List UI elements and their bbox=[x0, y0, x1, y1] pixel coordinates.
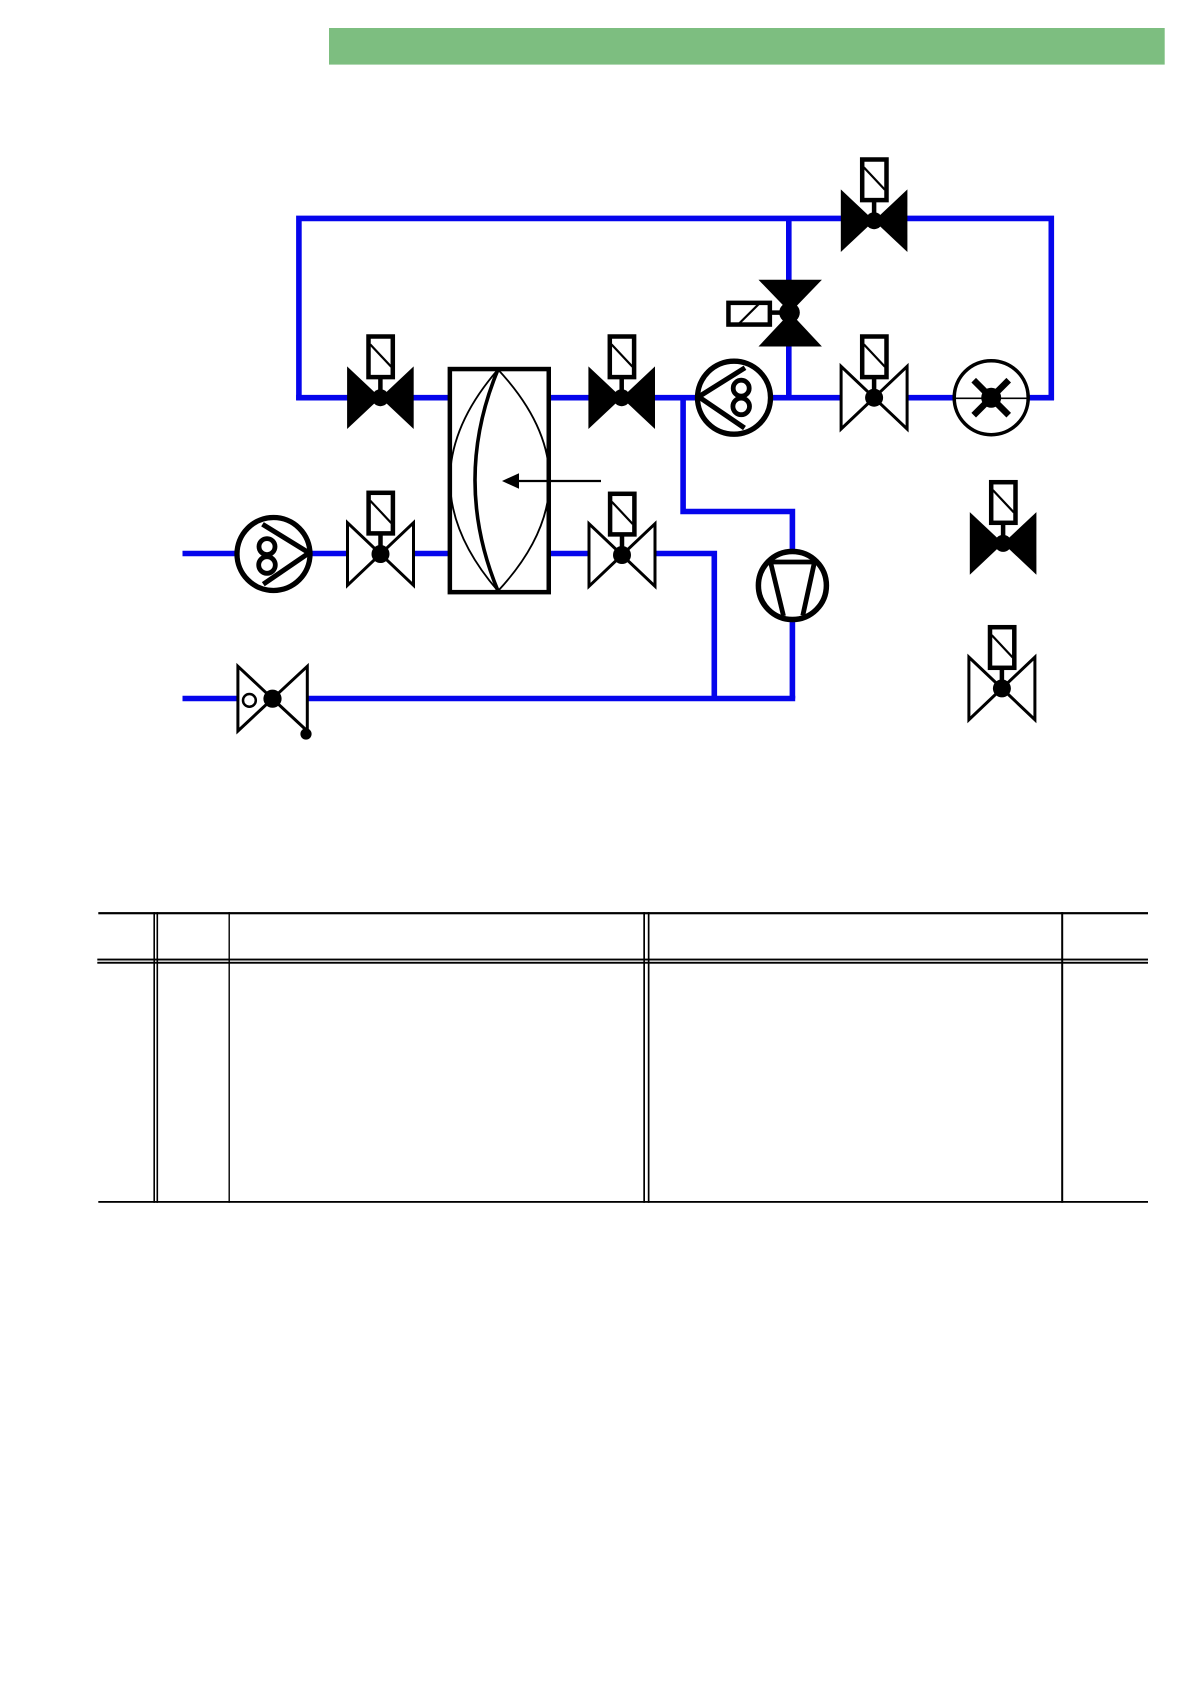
table: double vertical rule mid (left line) bbox=[643, 912, 645, 1203]
standalone control valve (white), legend right bbox=[969, 627, 1035, 720]
control valve (white, ball) on return row, left of exchanger bbox=[348, 493, 414, 586]
table: double vertical rule col1 (right line) bbox=[157, 912, 159, 1203]
table: header top rule bbox=[98, 912, 1148, 914]
pipe: bottom run y=698.5 bbox=[183, 696, 796, 702]
table: double rule under header (lower) bbox=[97, 962, 1148, 964]
heat exchanger bbox=[450, 369, 550, 592]
table: double vertical rule mid (right line) bbox=[648, 912, 650, 1203]
green header bar bbox=[329, 28, 1165, 65]
motor valve (black) on top bypass run bbox=[841, 160, 908, 253]
safety/drain valve on bottom run bbox=[238, 666, 312, 739]
pipe: top bypass loop (left riser, top run, right riser) bbox=[299, 218, 1051, 400]
vertical motor valve on riser with side actuator bbox=[728, 280, 821, 347]
pipe: branch from main row down to circulation pump P3 bbox=[683, 398, 792, 699]
table: bottom rule bbox=[98, 1201, 1148, 1203]
standalone motor valve (black), legend right bbox=[970, 482, 1037, 575]
motor valve (black) on main row, right of exchanger bbox=[588, 337, 655, 430]
balancing device (circle with X) on main row bbox=[954, 361, 1028, 435]
pump P3 on branch (flow down) bbox=[758, 552, 826, 620]
table: vertical rule col4 bbox=[1061, 912, 1063, 1203]
table: double vertical rule col1 (left line) bbox=[153, 912, 155, 1203]
control valve (white, ball) on return row, right of exchanger bbox=[589, 494, 655, 587]
control valve (white, ball) on main row right bbox=[841, 337, 907, 430]
table: double rule under header (upper) bbox=[97, 959, 1148, 961]
pipe: return row y=553.5 with drop at x=714.3 bbox=[183, 554, 715, 699]
pump P1 on return row (flow right) bbox=[237, 518, 310, 591]
pipe: main flow row y=397.7 bbox=[296, 395, 1054, 401]
arrow into heat exchanger bbox=[502, 473, 601, 489]
pump P2 on main row (flow left) bbox=[698, 361, 771, 434]
table: vertical rule col2 bbox=[229, 912, 230, 1203]
pipe: riser x=788.8 from top run to main row bbox=[786, 218, 792, 397]
motor valve (black) on main row, left of exchanger bbox=[347, 337, 414, 430]
